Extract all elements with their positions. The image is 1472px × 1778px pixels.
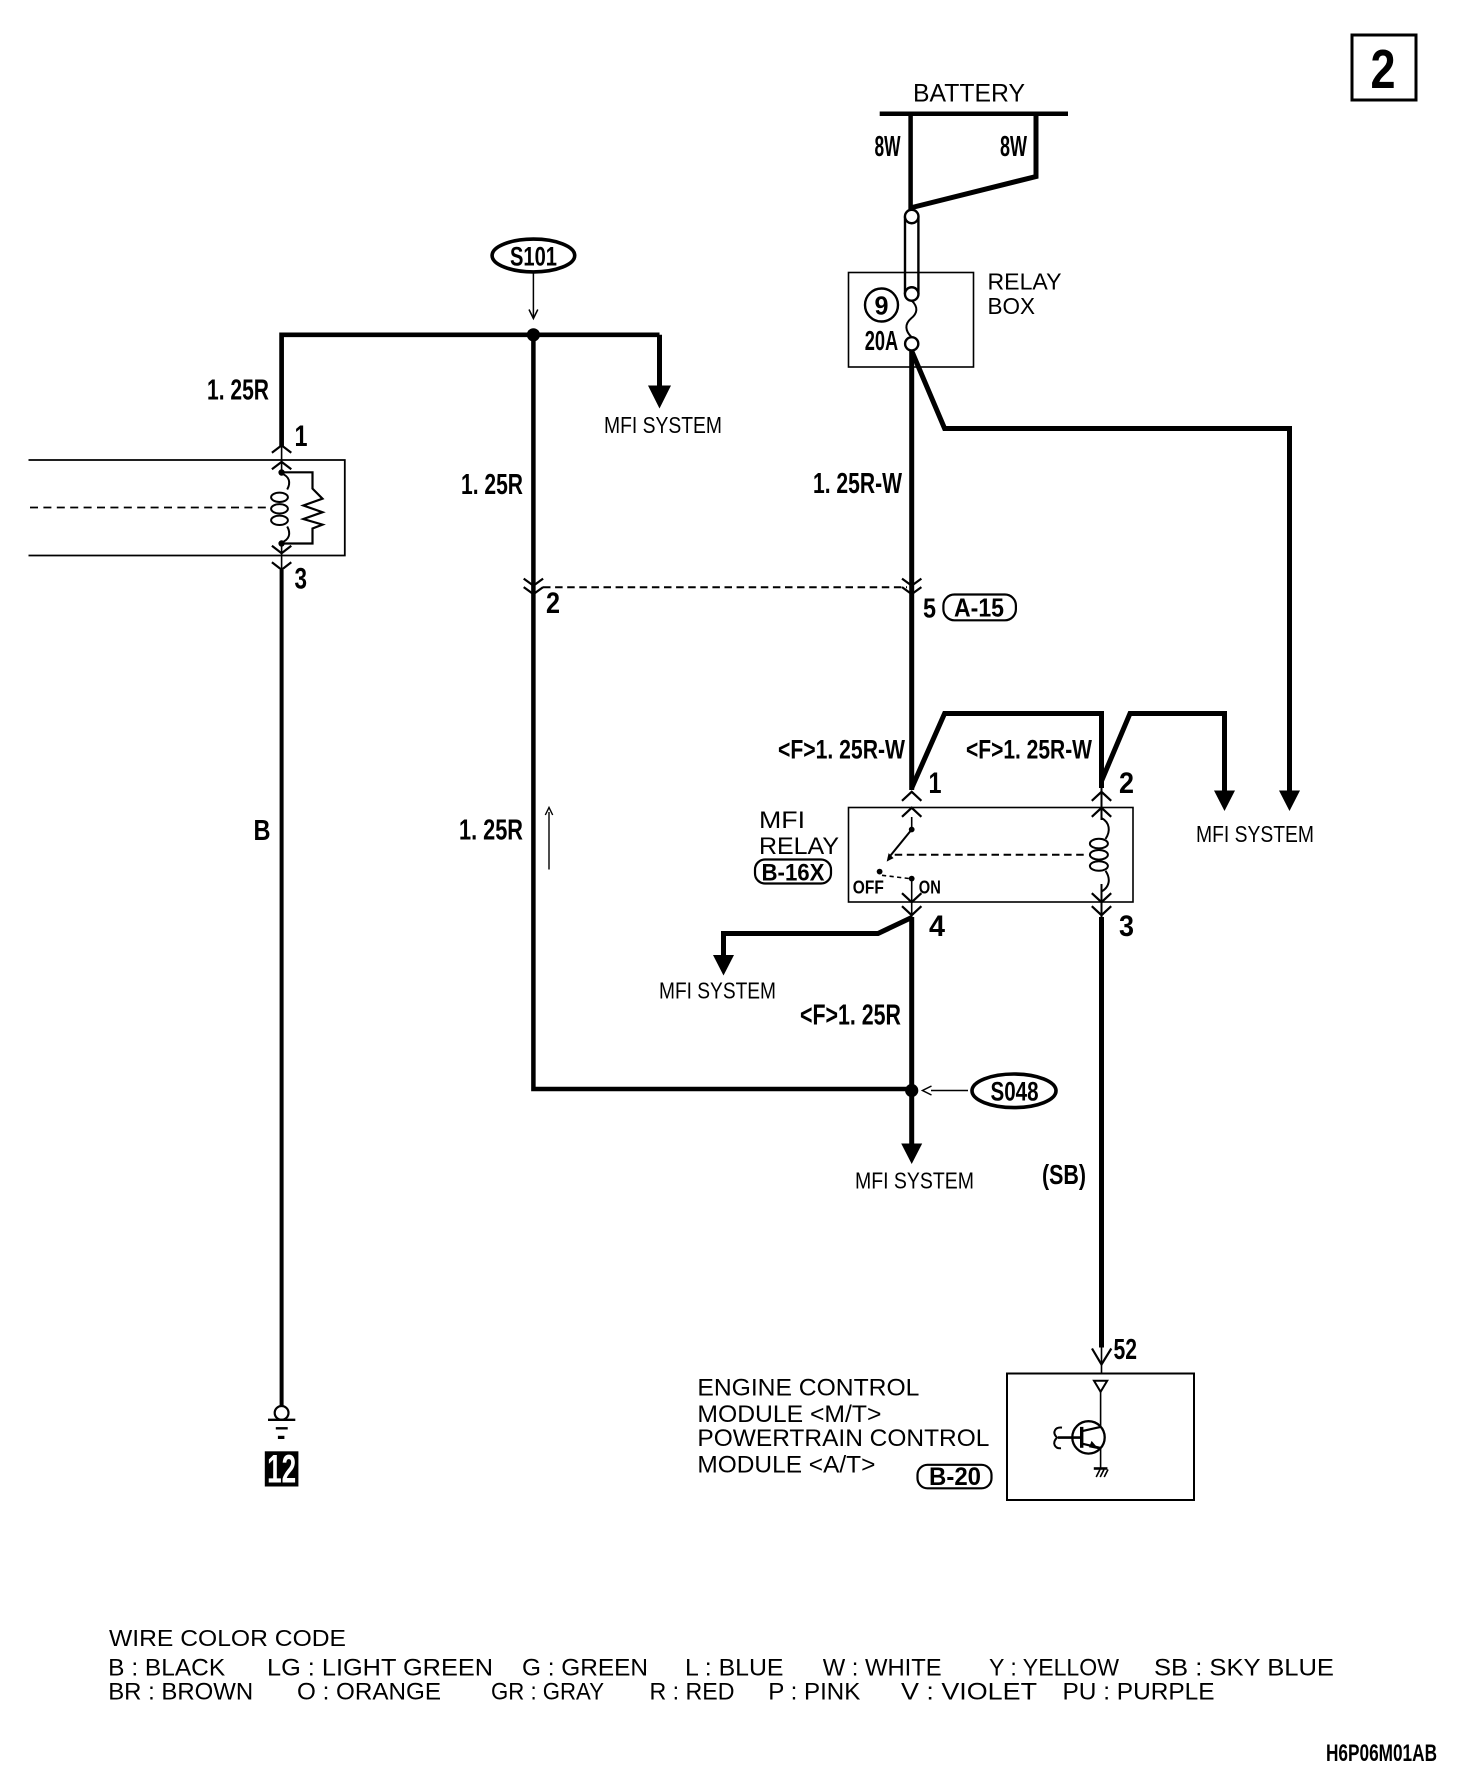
svg-text:PU : PURPLE: PU : PURPLE (1063, 1679, 1215, 1706)
input triangle (1094, 1381, 1107, 1392)
arrow MFI SYSTEM bottom (901, 1144, 922, 1165)
dashed link switch to coil (895, 854, 1088, 856)
relay box outline (849, 273, 974, 368)
svg-text:2: 2 (1119, 767, 1134, 800)
thin lead through pin3 (281, 544, 283, 571)
dashed wire into left component (30, 507, 266, 509)
battery bus bar (880, 111, 1068, 116)
svg-text:R : RED: R : RED (650, 1679, 735, 1706)
connector chevron pin 52 (1092, 1349, 1111, 1365)
wire below S048 junction (909, 1091, 914, 1145)
wire branch diagonal to far right vertical (912, 351, 1290, 791)
svg-text:V : VIOLET: V : VIOLET (901, 1679, 1037, 1706)
wire battery left lead 8W (908, 114, 913, 211)
dashed wire node2 to node5 (543, 586, 907, 588)
svg-text:3: 3 (1119, 910, 1134, 943)
current direction arrow up (548, 812, 550, 870)
svg-text:G : GREEN: G : GREEN (522, 1655, 648, 1682)
svg-text:S101: S101 (510, 242, 557, 272)
left component box (open left) (29, 460, 345, 556)
wire B ground wire (280, 570, 284, 1406)
connector chevrons pin 1 left component (272, 445, 291, 469)
wire trunk horizontal with left drop (282, 335, 660, 446)
svg-text:SB : SKY BLUE: SB : SKY BLUE (1154, 1655, 1334, 1682)
splice S101 (492, 239, 575, 272)
collector feed line (1100, 1392, 1102, 1427)
wire relay pin3 down to ECM (1099, 917, 1104, 1348)
svg-text:1. 25R: 1. 25R (459, 815, 523, 847)
wire MFI relay pin1 jumper to pin2 (912, 714, 1102, 789)
svg-text:<F>1. 25R: <F>1. 25R (800, 1000, 901, 1032)
svg-text:1. 25R: 1. 25R (207, 375, 269, 407)
internal ground (1094, 1467, 1108, 1470)
node dot bottom of coil (278, 540, 284, 546)
connector chevrons relay pin 1 (902, 792, 921, 817)
label RELAY BOX (988, 269, 1062, 320)
svg-text:POWERTRAIN CONTROL: POWERTRAIN CONTROL (697, 1425, 989, 1452)
junction dot S048 (905, 1084, 918, 1097)
svg-text:MFI SYSTEM: MFI SYSTEM (1196, 821, 1314, 847)
ECM internal circuit (1054, 1381, 1108, 1477)
svg-text:MODULE <M/T>: MODULE <M/T> (697, 1401, 881, 1428)
relay coil (1090, 788, 1109, 917)
connector A-15 box (943, 593, 1016, 623)
wire pin4 branch to MFI SYSTEM left (724, 918, 912, 957)
S048 pointer arrow (931, 1090, 968, 1092)
fuse 9 circle label (865, 289, 898, 322)
emitter ground line (1100, 1448, 1102, 1469)
svg-text:1. 25R-W: 1. 25R-W (813, 468, 902, 500)
connector B-20 box (918, 1463, 992, 1491)
svg-text:2: 2 (1371, 38, 1396, 100)
ground symbol left (268, 1406, 295, 1437)
page number box 2 (1352, 35, 1416, 100)
connector B-16X box (755, 860, 831, 887)
connector chevrons relay pin 2 (1092, 792, 1111, 817)
wire pin2 branch to MFI SYSTEM (1102, 714, 1225, 792)
svg-text:A-15: A-15 (954, 593, 1004, 623)
connector chevrons relay pin 4 (902, 893, 921, 915)
junction dot at S101 (527, 328, 540, 341)
svg-text:9: 9 (875, 291, 889, 321)
svg-text:L : BLUE: L : BLUE (685, 1655, 784, 1682)
svg-text:BOX: BOX (988, 293, 1036, 319)
svg-text:MFI SYSTEM: MFI SYSTEM (604, 412, 722, 438)
svg-text:2: 2 (546, 587, 560, 620)
svg-text:Y : YELLOW: Y : YELLOW (989, 1655, 1119, 1682)
resistor of left component (284, 472, 323, 543)
svg-text:<F>1. 25R-W: <F>1. 25R-W (778, 735, 905, 765)
svg-text:ON: ON (919, 877, 941, 898)
fuse 9 20A element curve (906, 301, 916, 338)
svg-text:<F>1. 25R-W: <F>1. 25R-W (966, 735, 1092, 765)
ECM box outline (1007, 1374, 1194, 1501)
svg-text:MFI SYSTEM: MFI SYSTEM (659, 978, 776, 1004)
svg-text:RELAY: RELAY (759, 833, 839, 860)
base lead hook (1058, 1436, 1082, 1439)
svg-text:BR : BROWN: BR : BROWN (108, 1679, 253, 1706)
arrow MFI SYSTEM far right (1279, 791, 1300, 812)
svg-text:1: 1 (295, 420, 308, 453)
svg-text:MFI: MFI (759, 807, 805, 834)
svg-text:MODULE <A/T>: MODULE <A/T> (697, 1451, 875, 1478)
svg-text:B : BLACK: B : BLACK (108, 1655, 225, 1682)
svg-text:WIRE COLOR CODE: WIRE COLOR CODE (109, 1625, 346, 1651)
svg-text:H6P06M01AB: H6P06M01AB (1326, 1740, 1437, 1767)
svg-text:1: 1 (929, 767, 942, 800)
wire pin4 down to S048 junction (909, 917, 914, 1089)
svg-text:OFF: OFF (853, 877, 884, 898)
label MFI RELAY (759, 807, 839, 860)
wire battery right lead 8W (912, 114, 1036, 208)
svg-text:W : WHITE: W : WHITE (823, 1655, 942, 1682)
relay switch (877, 817, 915, 917)
S101 pointer arrow (532, 274, 534, 318)
svg-text:MFI SYSTEM: MFI SYSTEM (855, 1168, 974, 1194)
legend wire color code (108, 1625, 1334, 1706)
svg-text:P : PINK: P : PINK (768, 1679, 860, 1706)
connector chevrons pin 3 left component (272, 546, 291, 570)
svg-text:GR : GRAY: GR : GRAY (491, 1679, 604, 1706)
svg-text:B: B (254, 815, 271, 847)
svg-text:B-20: B-20 (929, 1463, 981, 1491)
connector chevrons relay pin 3 (1092, 893, 1111, 915)
fuse lower terminal (905, 337, 918, 350)
wire 1.25R middle run (533, 335, 911, 1089)
wire battery feed down from fuse (909, 350, 914, 790)
svg-text:52: 52 (1114, 1334, 1138, 1366)
MFI relay box outline (849, 808, 1134, 903)
arrow MFI SYSTEM mid right (1214, 791, 1235, 812)
svg-text:20A: 20A (865, 325, 899, 356)
svg-text:1. 25R: 1. 25R (461, 469, 523, 501)
svg-text:8W: 8W (1000, 131, 1027, 163)
node dot top of coil (278, 469, 284, 475)
svg-text:RELAY: RELAY (988, 269, 1062, 295)
svg-text:S048: S048 (991, 1077, 1039, 1107)
svg-text:B-16X: B-16X (762, 860, 825, 887)
svg-text:12: 12 (267, 1448, 296, 1492)
svg-text:O : ORANGE: O : ORANGE (297, 1679, 441, 1706)
node 2 connector chevrons (524, 579, 543, 595)
svg-text:8W: 8W (875, 131, 901, 163)
svg-text:5: 5 (923, 593, 936, 624)
splice S048 (972, 1074, 1056, 1108)
svg-text:ENGINE CONTROL: ENGINE CONTROL (697, 1374, 919, 1401)
svg-text:3: 3 (295, 563, 308, 596)
node 5 connector chevrons A-15 (902, 579, 921, 595)
arrow MFI SYSTEM top (648, 386, 671, 409)
fusible link capsule (905, 210, 919, 301)
thin lead through pin1 (281, 446, 283, 473)
svg-text:(SB): (SB) (1042, 1159, 1086, 1190)
label ENGINE CONTROL MODULE (697, 1374, 989, 1478)
coil of left component (271, 474, 289, 543)
arrow MFI SYSTEM lower left (713, 955, 734, 976)
svg-text:4: 4 (929, 910, 945, 943)
wire right branch down to MFI SYSTEM arrow (657, 335, 662, 386)
transistor Q (1072, 1421, 1104, 1453)
svg-text:BATTERY: BATTERY (913, 80, 1025, 108)
ground ref box 12 (265, 1448, 299, 1492)
svg-text:LG : LIGHT GREEN: LG : LIGHT GREEN (267, 1655, 493, 1682)
